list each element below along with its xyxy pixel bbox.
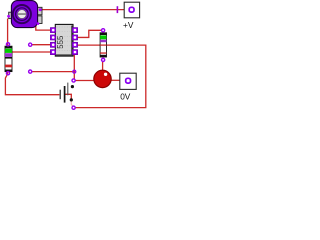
pin 4 left xyxy=(50,50,55,55)
wire LED right lead to 0V terminal xyxy=(111,79,126,81)
wire right resistor bottom to LED top lead xyxy=(102,61,104,72)
battery B1 xyxy=(60,86,64,103)
switch SW1 xyxy=(68,79,75,109)
power terminal 0V xyxy=(120,73,136,101)
wire 555 pin4 left to left rail, passes behind resistor R1 xyxy=(8,51,51,53)
potentiometer VR1 xyxy=(7,1,42,28)
resistor R2 right xyxy=(100,29,106,62)
wire switch top terminal to LED left lead xyxy=(75,80,97,82)
pin 3 left xyxy=(50,42,55,47)
pin 6 right xyxy=(72,42,77,47)
resistor R1 left xyxy=(5,43,12,75)
wire pot upper tab to +V box xyxy=(41,9,130,11)
wire node B stub to junction xyxy=(32,71,74,73)
node B open terminal xyxy=(29,70,32,73)
wire 555 pin7 right up to resistor R2 top terminal xyxy=(78,30,102,37)
node A open terminal xyxy=(29,43,32,46)
pin 2 left xyxy=(50,35,55,40)
pin 8 right xyxy=(72,28,77,33)
junction tick on +V wire xyxy=(116,6,118,13)
pin 1 left xyxy=(50,28,55,33)
pin 5 right xyxy=(72,50,77,55)
wire node A stub to 555 pin3 left xyxy=(32,44,51,46)
wire pot lower tab down and right to 555 pin1 left xyxy=(36,24,51,31)
power terminal +V xyxy=(123,2,140,30)
LED D1 xyxy=(94,70,111,87)
wire 555 pin6 right to right edge, down, along bottom to switch bottom terminal xyxy=(75,45,146,108)
svg-text:+V: +V xyxy=(123,20,134,30)
junction node of B wire and pin5 wire xyxy=(73,70,76,73)
wire battery plus to switch lower contact xyxy=(65,94,71,98)
svg-text:0V: 0V xyxy=(120,91,131,101)
pin 7 right xyxy=(72,35,77,40)
wire 555 pin5 right down to switch top terminal xyxy=(73,54,75,79)
wire left rail from pot left tab down to battery xyxy=(5,19,59,95)
IC U1 555 xyxy=(50,24,77,56)
svg-text:555: 555 xyxy=(56,35,65,49)
